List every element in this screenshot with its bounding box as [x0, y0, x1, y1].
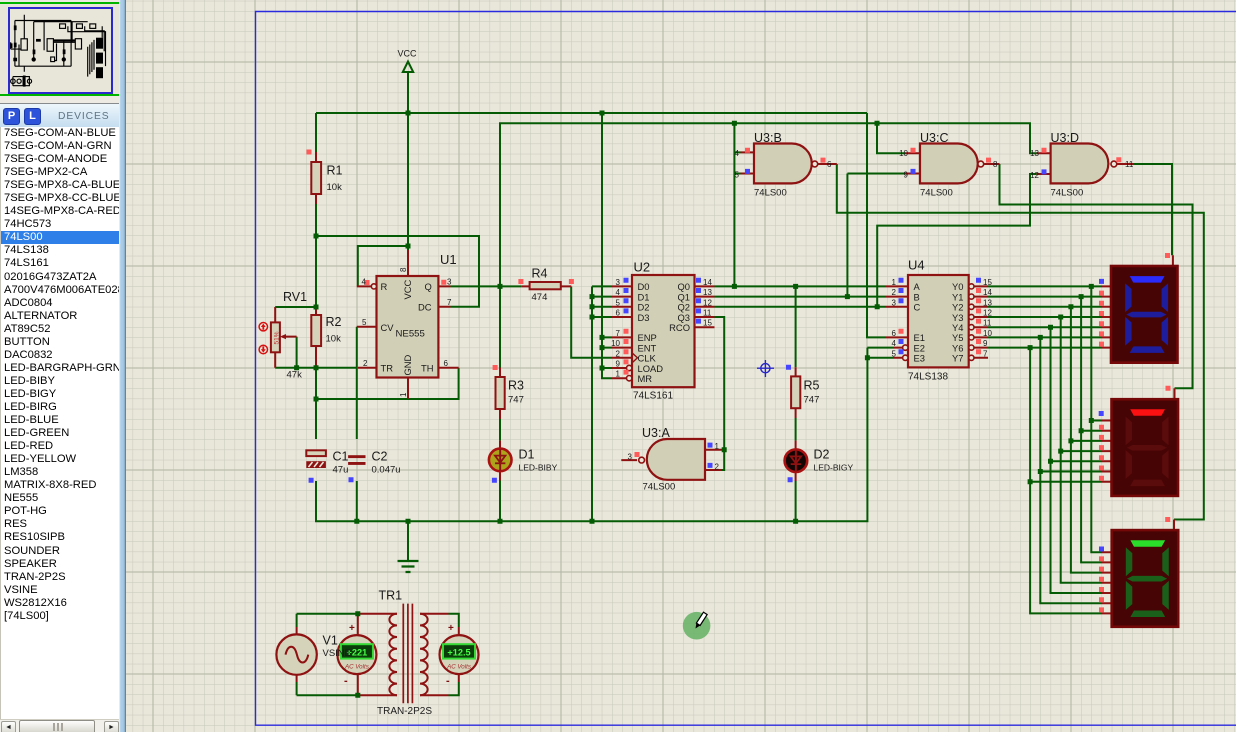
svg-text:74LS138: 74LS138 — [908, 372, 948, 383]
svg-text:9: 9 — [904, 170, 909, 179]
svg-text:15: 15 — [983, 278, 992, 287]
svg-text:4: 4 — [616, 288, 621, 297]
svg-text:CV: CV — [381, 322, 395, 333]
svg-text:Q: Q — [425, 281, 432, 292]
svg-text:7: 7 — [447, 298, 452, 307]
svg-text:12: 12 — [703, 298, 712, 307]
svg-text:13: 13 — [1030, 149, 1039, 158]
svg-text:74LS00: 74LS00 — [920, 188, 953, 199]
svg-text:D2: D2 — [814, 448, 830, 462]
svg-text:2: 2 — [363, 359, 368, 368]
svg-text:LED-BIBY: LED-BIBY — [519, 463, 558, 473]
svg-text:VSINE: VSINE — [323, 648, 352, 659]
svg-text:MR: MR — [638, 373, 653, 384]
svg-text:D3: D3 — [638, 312, 650, 323]
svg-text:R2: R2 — [326, 315, 342, 329]
svg-text:U2: U2 — [634, 260, 651, 275]
svg-text:TR1: TR1 — [379, 589, 403, 603]
svg-text:3: 3 — [892, 298, 897, 307]
svg-text:15: 15 — [703, 319, 712, 328]
svg-text:R3: R3 — [508, 379, 524, 393]
svg-text:V1: V1 — [323, 634, 338, 648]
svg-text:8: 8 — [993, 160, 998, 169]
svg-text:1: 1 — [616, 370, 621, 379]
svg-text:47k: 47k — [287, 370, 303, 381]
svg-text:1: 1 — [399, 392, 408, 397]
svg-text:U1: U1 — [440, 252, 457, 267]
svg-text:13: 13 — [983, 298, 992, 307]
svg-text:+: + — [448, 623, 454, 634]
svg-text:0.047u: 0.047u — [372, 465, 401, 476]
svg-text:U3:B: U3:B — [754, 131, 782, 145]
svg-text:AC Volts: AC Volts — [446, 663, 471, 670]
svg-text:E3: E3 — [914, 353, 925, 364]
svg-text:2: 2 — [616, 349, 621, 358]
svg-text:8: 8 — [399, 267, 408, 272]
svg-text:2: 2 — [892, 288, 897, 297]
svg-text:5: 5 — [892, 349, 897, 358]
svg-text:9: 9 — [616, 360, 621, 369]
svg-text:14: 14 — [983, 288, 992, 297]
svg-text:11: 11 — [1125, 160, 1134, 169]
svg-text:TRAN-2P2S: TRAN-2P2S — [377, 706, 432, 717]
svg-text:LED-BIGY: LED-BIGY — [814, 463, 854, 473]
svg-text:5: 5 — [362, 318, 367, 327]
svg-text:9: 9 — [983, 339, 988, 348]
svg-text:-: - — [344, 675, 348, 687]
svg-text:474: 474 — [532, 292, 548, 303]
svg-text:4: 4 — [735, 149, 740, 158]
svg-text:U3:D: U3:D — [1051, 131, 1079, 145]
svg-text:12: 12 — [1030, 171, 1039, 180]
svg-text:5: 5 — [735, 170, 740, 179]
svg-text:NE555: NE555 — [396, 329, 425, 340]
svg-text:3: 3 — [628, 453, 633, 462]
svg-text:10: 10 — [899, 149, 908, 158]
svg-text:51%: 51% — [274, 331, 281, 344]
svg-text:3: 3 — [616, 278, 621, 287]
svg-text:4: 4 — [892, 339, 897, 348]
svg-text:7: 7 — [983, 349, 988, 358]
svg-text:C1: C1 — [333, 450, 349, 464]
svg-text:13: 13 — [703, 288, 712, 297]
svg-text:74LS00: 74LS00 — [643, 482, 676, 493]
svg-text:74LS00: 74LS00 — [754, 188, 787, 199]
svg-text:U3:A: U3:A — [642, 426, 670, 440]
svg-text:3: 3 — [447, 277, 452, 286]
svg-text:RCO: RCO — [669, 322, 690, 333]
svg-text:14: 14 — [703, 278, 712, 287]
svg-text:1: 1 — [715, 442, 720, 451]
svg-text:10k: 10k — [326, 334, 342, 345]
svg-text:DC: DC — [418, 302, 432, 313]
svg-text:Y7: Y7 — [952, 353, 963, 364]
svg-text:AC Volts: AC Volts — [344, 663, 369, 670]
svg-text:R5: R5 — [804, 379, 820, 393]
svg-text:10: 10 — [983, 329, 992, 338]
svg-text:6: 6 — [616, 309, 621, 318]
svg-text:+12.5: +12.5 — [447, 648, 470, 658]
svg-text:2: 2 — [715, 462, 720, 471]
svg-text:D1: D1 — [519, 448, 535, 462]
svg-text:U3:C: U3:C — [920, 131, 948, 145]
svg-text:R: R — [381, 281, 388, 292]
svg-text:6: 6 — [892, 329, 897, 338]
svg-text:11: 11 — [983, 319, 992, 328]
svg-text:10k: 10k — [327, 182, 343, 193]
svg-text:7: 7 — [616, 329, 621, 338]
svg-text:U4: U4 — [908, 258, 925, 273]
svg-text:10: 10 — [611, 339, 620, 348]
svg-text:RV1: RV1 — [283, 290, 307, 304]
svg-text:47u: 47u — [333, 465, 349, 476]
svg-text:VCC: VCC — [402, 279, 413, 299]
svg-text:TH: TH — [421, 363, 434, 374]
svg-text:R4: R4 — [532, 267, 548, 281]
svg-text:C: C — [914, 302, 921, 313]
svg-text:R1: R1 — [327, 164, 343, 178]
svg-text:5: 5 — [616, 298, 621, 307]
svg-text:GND: GND — [402, 354, 413, 375]
svg-text:1: 1 — [892, 278, 897, 287]
svg-text:747: 747 — [804, 395, 820, 406]
svg-text:11: 11 — [703, 309, 712, 318]
svg-text:6: 6 — [827, 160, 832, 169]
svg-text:6: 6 — [444, 359, 449, 368]
svg-text:TR: TR — [381, 363, 394, 374]
svg-text:74LS00: 74LS00 — [1051, 188, 1084, 199]
svg-text:-: - — [446, 675, 450, 687]
svg-text:C2: C2 — [372, 450, 388, 464]
svg-text:747: 747 — [508, 395, 524, 406]
svg-text:4: 4 — [362, 277, 367, 286]
svg-text:VCC: VCC — [398, 49, 418, 59]
svg-text:74LS161: 74LS161 — [633, 391, 673, 402]
svg-text:12: 12 — [983, 309, 992, 318]
svg-text:+: + — [349, 623, 355, 634]
